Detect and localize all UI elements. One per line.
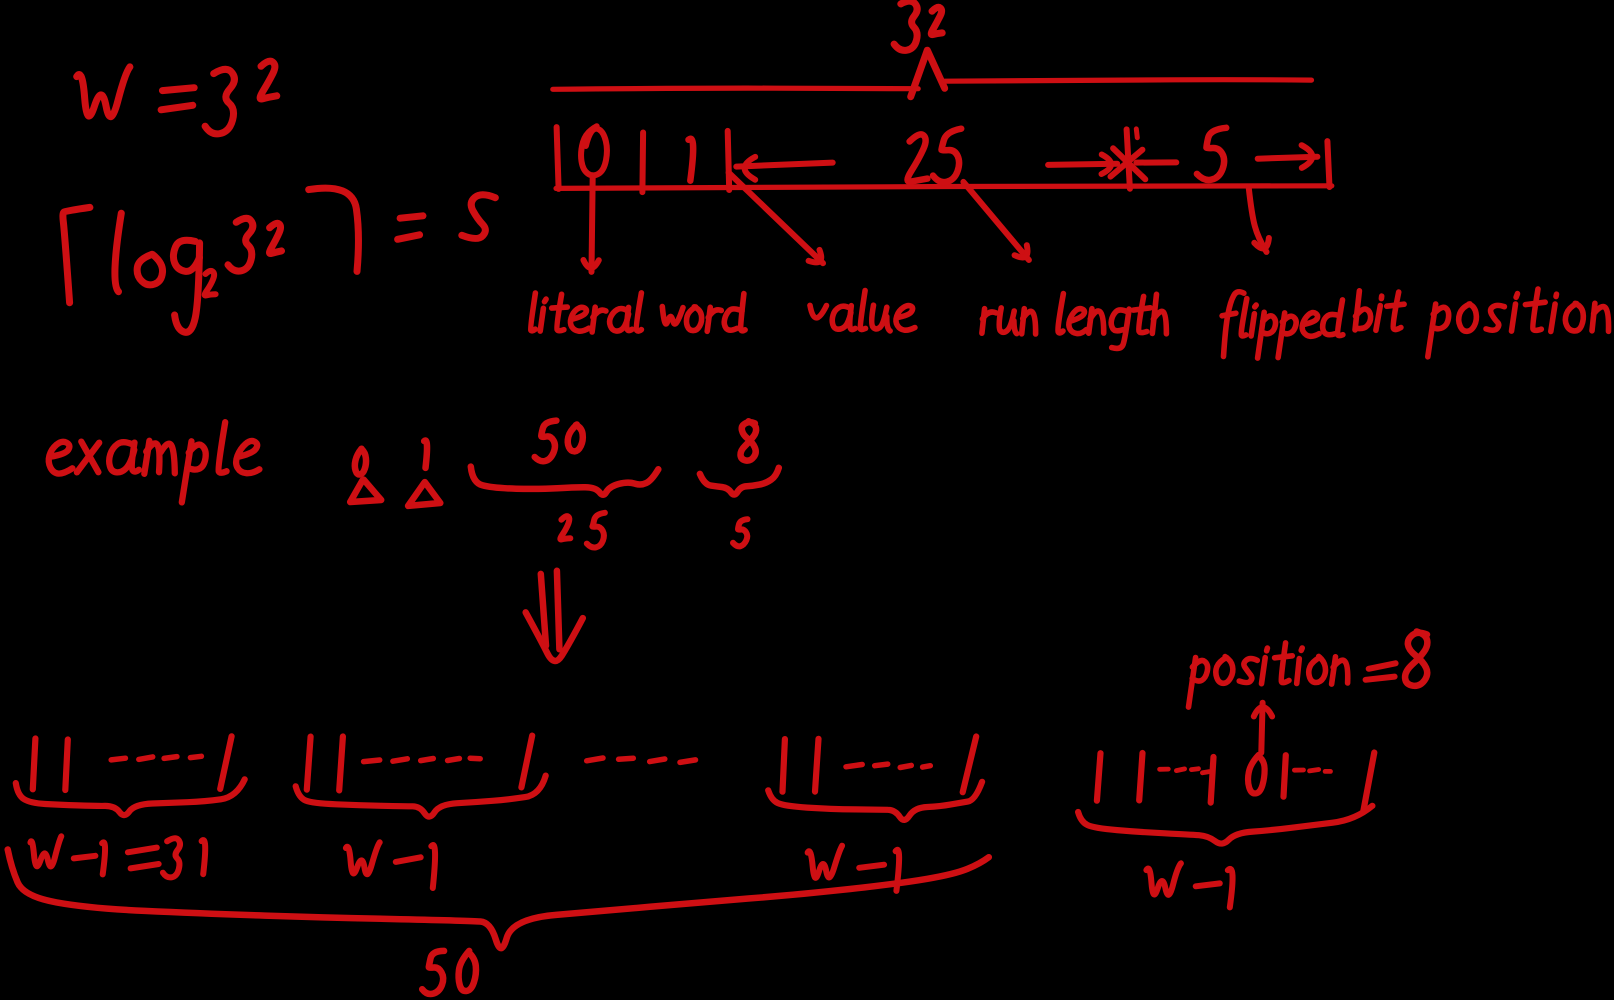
tick between fields (star) — [1127, 129, 1130, 188]
label ceil(log2 32)=5 — [63, 207, 90, 302]
arrow from bit0 to literal word — [592, 175, 593, 272]
brace under group 4 — [1078, 806, 1372, 844]
wire top line left — [553, 88, 918, 89]
ellipsis dashes between groups — [587, 758, 603, 761]
node width caret — [911, 50, 945, 96]
arrow from 5 to flipped bit position — [1249, 187, 1267, 252]
label W=32 — [77, 67, 130, 117]
brace under group 1 — [16, 779, 245, 815]
example bit 1 — [424, 441, 427, 468]
label 5 (bits) — [733, 519, 748, 546]
double down arrow — [541, 574, 546, 646]
wire box bottom line — [556, 186, 1332, 189]
arrow from bit1 to value — [729, 173, 823, 264]
label W-1 (group 3) — [808, 846, 843, 878]
bit 1 in box — [689, 139, 694, 181]
brace under 8 — [700, 468, 779, 495]
big brace (50 words) — [8, 850, 989, 949]
label 32 (width) — [894, 1, 917, 50]
group 3 ticks (ones) — [783, 739, 785, 792]
label W-1 (group 2) — [346, 842, 380, 874]
marker triangle under 1 — [408, 482, 440, 506]
label value — [810, 305, 827, 317]
brace under group 3 — [768, 782, 982, 820]
label 50 (below big brace) — [422, 951, 444, 994]
label flipped bit position — [1224, 292, 1244, 357]
wire cell divider 2 — [728, 131, 730, 190]
brace under group 2 — [296, 776, 546, 817]
label position=8 — [1189, 658, 1196, 708]
arrow from 25 to run length — [963, 182, 1029, 260]
label example — [49, 442, 73, 474]
wire box left edge — [557, 127, 559, 189]
group 4 ticks with 0 bit — [1097, 753, 1101, 801]
marker triangle under 0 — [350, 480, 381, 502]
dimension arrow left (25 field) — [745, 157, 756, 180]
label 50 (run count) — [535, 421, 557, 462]
arrow up to position=8 — [1261, 703, 1262, 753]
wire cell divider 1 — [639, 133, 646, 193]
label run length — [982, 309, 985, 334]
label 8 (position) — [740, 421, 756, 460]
label W-1 (group 4) — [1146, 863, 1181, 894]
group 1 ticks (ones) — [33, 739, 36, 790]
dimension arrow right — [1258, 157, 1318, 159]
wire top line right — [945, 80, 1312, 81]
label 5 (position field width) — [1197, 128, 1226, 180]
label literal word — [531, 293, 536, 331]
bit 0 in box — [581, 126, 607, 175]
label 25 (bits) — [560, 516, 570, 539]
example bit 0 — [355, 449, 366, 475]
dimension arrow mid (to tick) — [1048, 164, 1117, 165]
label 25 (run length field) — [908, 134, 928, 181]
label W-1=31 — [30, 836, 61, 866]
group 2 ticks (ones) — [307, 737, 311, 790]
bit 0 (flipped) in group 4 — [1248, 755, 1265, 793]
brace under 50 — [471, 467, 659, 495]
tick right end — [1327, 141, 1329, 187]
